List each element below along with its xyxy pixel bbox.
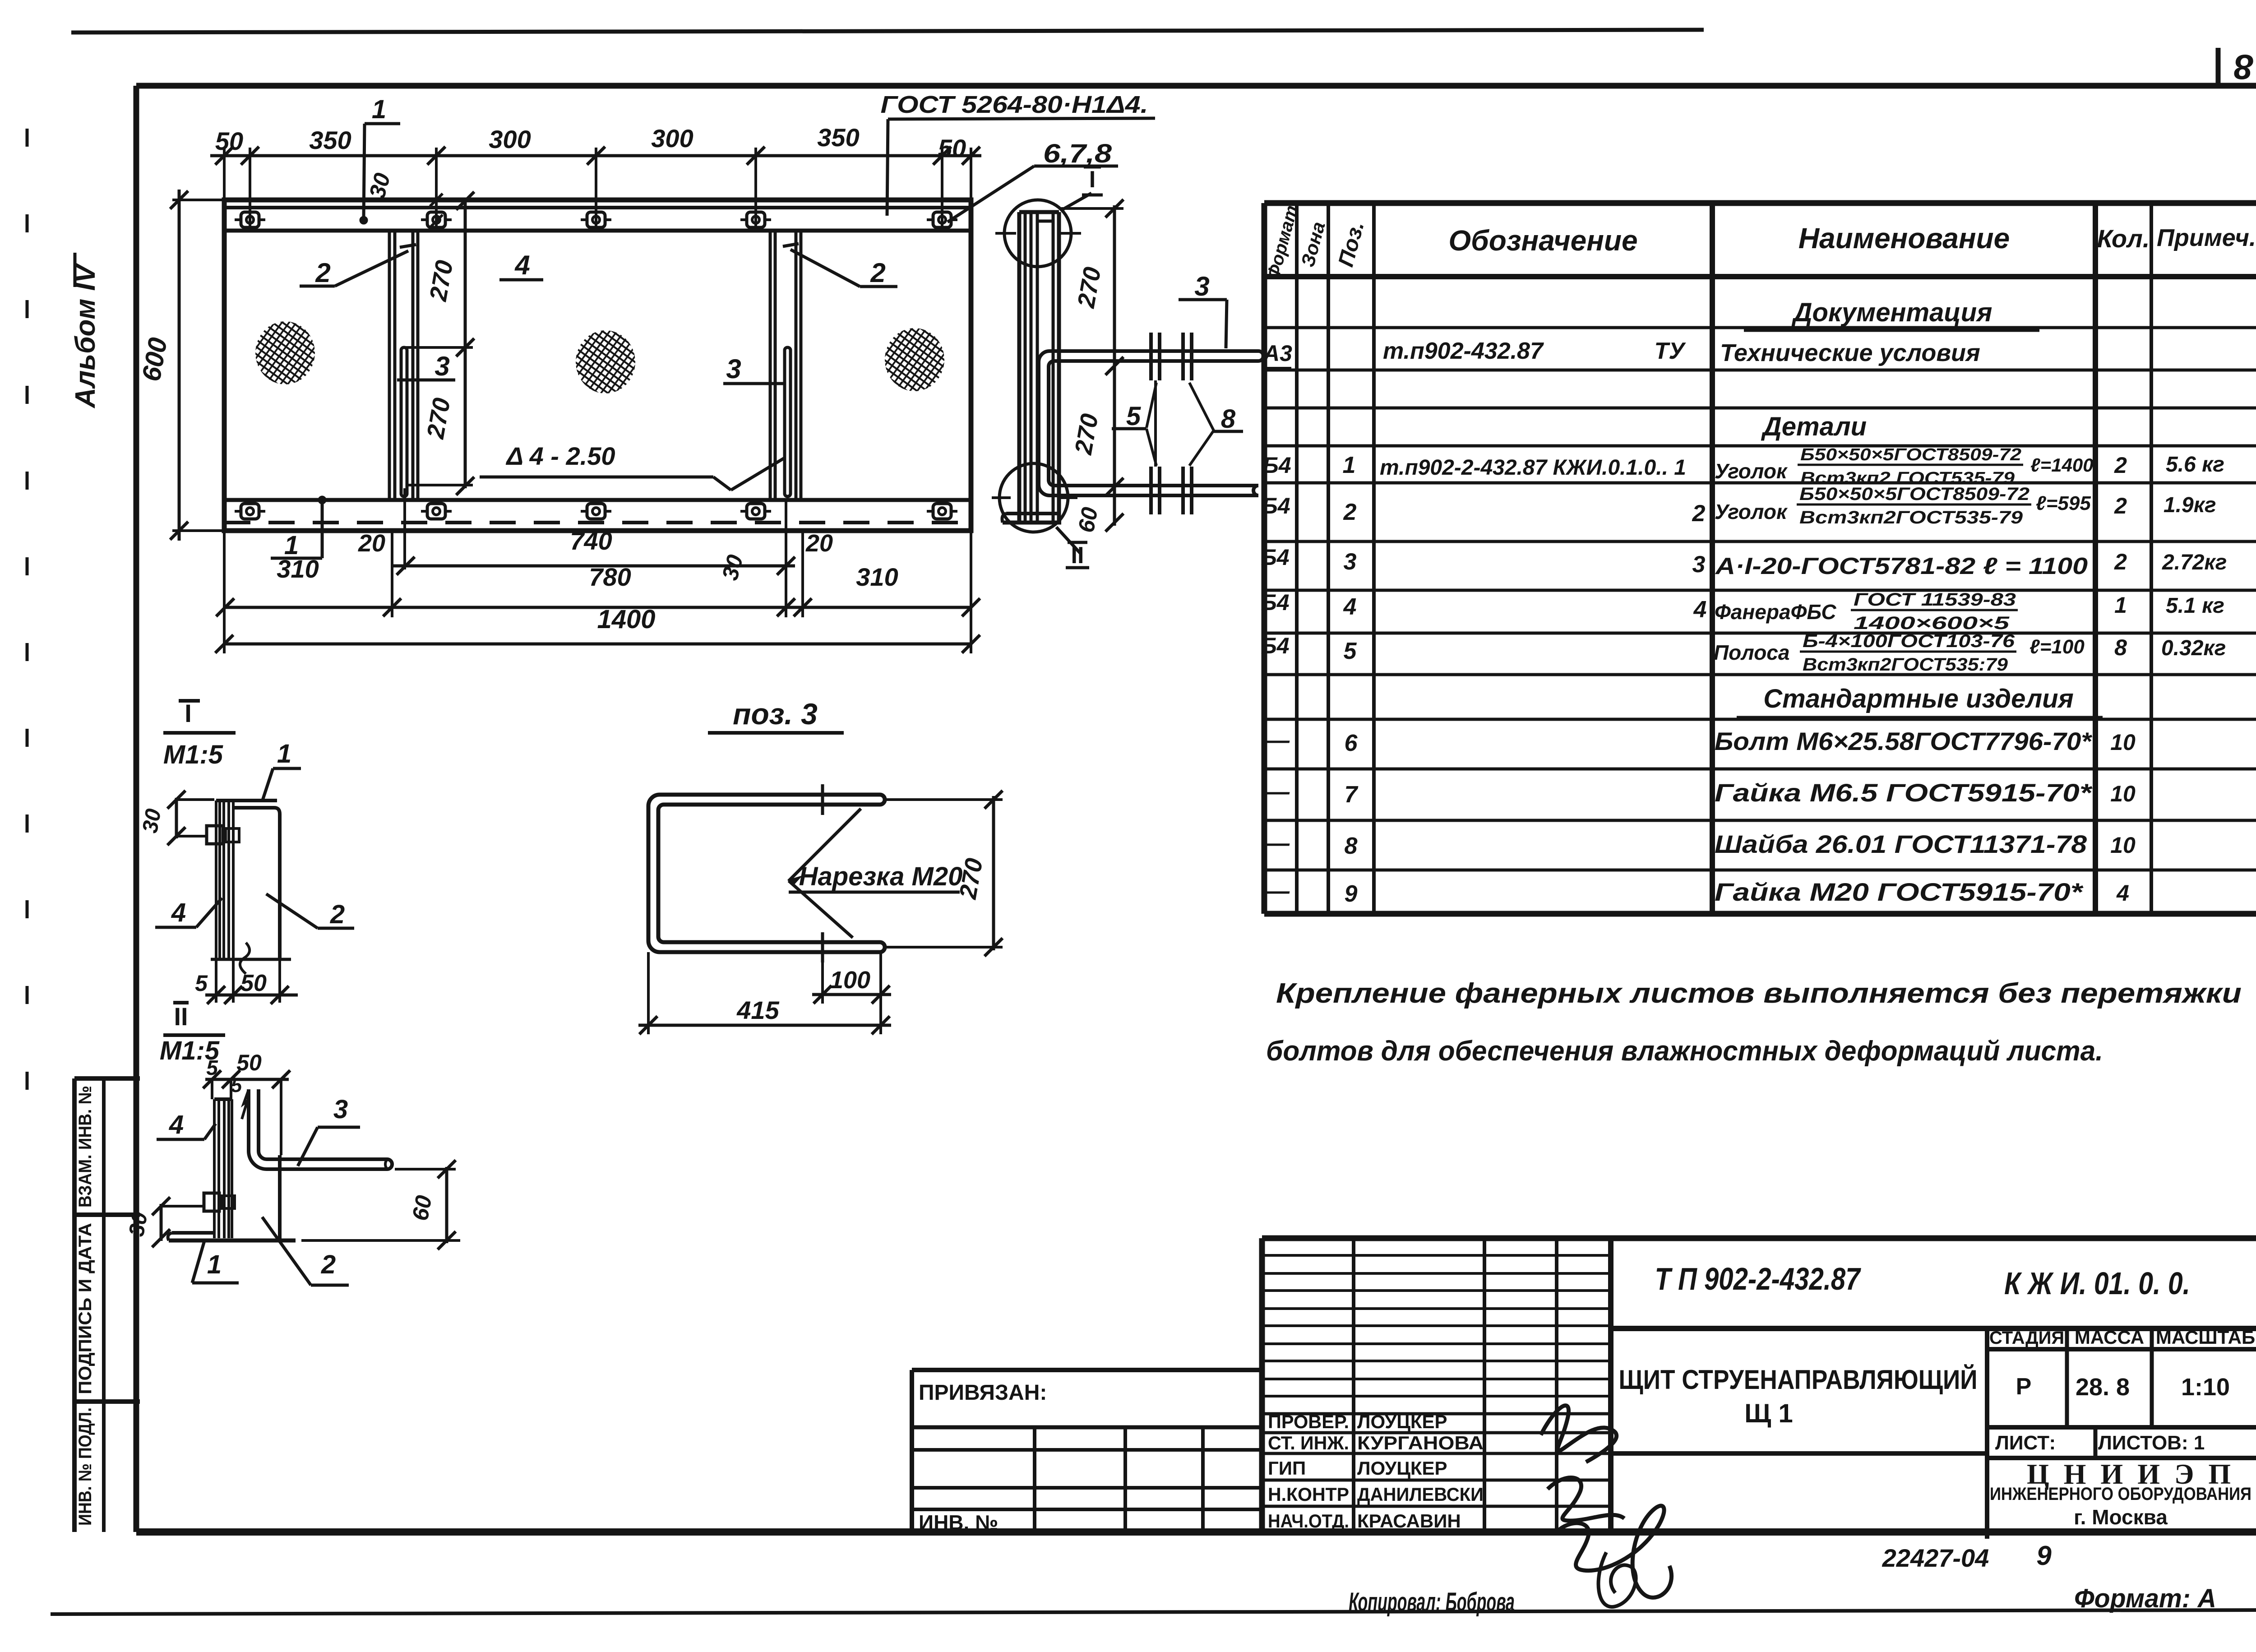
svg-text:Копировал: Боброва: Копировал: Боброва	[1349, 1587, 1515, 1617]
svg-text:100: 100	[830, 967, 870, 994]
svg-text:50: 50	[215, 127, 243, 155]
svg-text:60: 60	[407, 1194, 437, 1223]
svg-text:1400×600×5: 1400×600×5	[1854, 613, 2010, 633]
svg-text:20: 20	[805, 530, 833, 557]
svg-text:ℓ=100: ℓ=100	[2029, 636, 2085, 658]
svg-text:4: 4	[514, 250, 530, 280]
svg-text:Кол.: Кол.	[2097, 224, 2150, 253]
svg-text:ГИП: ГИП	[1268, 1458, 1306, 1479]
svg-text:Наименование: Наименование	[1798, 222, 2010, 255]
svg-text:0.32кг: 0.32кг	[2161, 636, 2226, 660]
svg-text:ПРИВЯЗАН:: ПРИВЯЗАН:	[919, 1381, 1047, 1405]
svg-text:II: II	[1071, 542, 1084, 569]
svg-text:Полоса: Полоса	[1714, 641, 1789, 664]
svg-text:ДАНИЛЕВСКИ: ДАНИЛЕВСКИ	[1357, 1484, 1484, 1505]
svg-text:Б-4×100ГОСТ103-76: Б-4×100ГОСТ103-76	[1803, 631, 2015, 651]
svg-text:3: 3	[435, 351, 449, 381]
svg-text:50: 50	[938, 134, 966, 162]
svg-text:ТУ: ТУ	[1655, 338, 1687, 364]
svg-text:7: 7	[1345, 782, 1359, 808]
svg-text:8: 8	[1221, 404, 1236, 434]
svg-text:ЛИСТ:: ЛИСТ:	[1995, 1432, 2056, 1454]
svg-text:Δ 4 - 2.50: Δ 4 - 2.50	[506, 442, 615, 470]
svg-text:30: 30	[125, 1210, 153, 1238]
svg-text:Б50×50×5ГОСТ8509-72: Б50×50×5ГОСТ8509-72	[1800, 445, 2021, 464]
svg-text:4: 4	[169, 1110, 184, 1139]
svg-text:1400: 1400	[597, 605, 655, 634]
svg-text:ИНЖЕНЕРНОГО ОБОРУДОВАНИЯ: ИНЖЕНЕРНОГО ОБОРУДОВАНИЯ	[1990, 1484, 2251, 1504]
svg-text:6,7,8: 6,7,8	[1043, 139, 1112, 168]
svg-text:10: 10	[2110, 833, 2136, 858]
svg-text:3: 3	[333, 1095, 348, 1124]
svg-text:ИНВ. № ПОДЛ.: ИНВ. № ПОДЛ.	[75, 1407, 95, 1526]
svg-text:ЛИСТОВ: 1: ЛИСТОВ: 1	[2098, 1432, 2205, 1454]
svg-text:Технические условия: Технические условия	[1720, 339, 1980, 366]
svg-text:болтов для обеспечения влажнос: болтов для обеспечения влажностных дефор…	[1266, 1036, 2103, 1067]
svg-text:2: 2	[321, 1250, 336, 1279]
svg-text:5: 5	[231, 1074, 242, 1097]
svg-text:Н.КОНТР: Н.КОНТР	[1268, 1484, 1349, 1505]
svg-text:Детали: Детали	[1761, 412, 1867, 441]
svg-text:415: 415	[736, 996, 779, 1024]
svg-text:4: 4	[171, 898, 186, 927]
svg-text:350: 350	[309, 126, 351, 154]
svg-text:5: 5	[1126, 402, 1141, 431]
svg-text:2: 2	[870, 258, 885, 288]
svg-text:6: 6	[1345, 730, 1358, 756]
svg-text:2: 2	[2114, 549, 2127, 574]
svg-text:310: 310	[856, 563, 898, 591]
svg-text:4: 4	[1693, 597, 1707, 623]
svg-text:ГОСТ 11539-83: ГОСТ 11539-83	[1854, 590, 2016, 610]
svg-text:Б4: Б4	[1261, 633, 1289, 658]
svg-text:4: 4	[1343, 594, 1357, 620]
svg-text:—: —	[1266, 727, 1290, 754]
svg-text:поз. 3: поз. 3	[733, 697, 818, 731]
svg-text:2: 2	[330, 900, 345, 929]
svg-text:МАССА: МАССА	[2075, 1327, 2144, 1348]
svg-text:1: 1	[372, 95, 386, 124]
svg-text:НАЧ.ОТД.: НАЧ.ОТД.	[1268, 1510, 1349, 1532]
svg-text:5: 5	[195, 971, 208, 996]
svg-text:22427-04: 22427-04	[1882, 1544, 1989, 1572]
svg-text:780: 780	[589, 563, 631, 591]
svg-text:2: 2	[1692, 500, 1706, 527]
svg-text:Б4: Б4	[1262, 493, 1290, 518]
svg-text:Крепление фанерных листов выпо: Крепление фанерных листов выполняется бе…	[1276, 978, 2242, 1009]
svg-text:Примеч.: Примеч.	[2157, 224, 2256, 251]
svg-text:4: 4	[2116, 880, 2129, 906]
svg-text:Обозначение: Обозначение	[1448, 224, 1637, 257]
svg-text:310: 310	[277, 555, 319, 583]
svg-text:1.9кг: 1.9кг	[2164, 493, 2216, 517]
svg-text:Б50×50×5ГОСТ8509-72: Б50×50×5ГОСТ8509-72	[1799, 484, 2029, 504]
svg-text:ℓ=1400: ℓ=1400	[2030, 454, 2094, 476]
svg-text:Вст3кп2ГОСТ535:79: Вст3кп2ГОСТ535:79	[1803, 655, 2008, 675]
svg-text:Р: Р	[2016, 1374, 2032, 1400]
svg-text:60: 60	[1073, 505, 1103, 535]
svg-text:8: 8	[2114, 635, 2127, 660]
svg-text:Уголок: Уголок	[1715, 500, 1788, 523]
svg-text:—: —	[1266, 779, 1290, 805]
svg-text:3: 3	[726, 354, 741, 384]
svg-text:300: 300	[489, 125, 531, 153]
svg-text:30: 30	[138, 807, 166, 835]
svg-text:Нарезка М20: Нарезка М20	[799, 862, 963, 891]
svg-text:II: II	[174, 1002, 188, 1031]
svg-text:Вст3кп2ГОСТ535-79: Вст3кп2ГОСТ535-79	[1799, 508, 2023, 528]
svg-text:1: 1	[2114, 592, 2127, 618]
svg-text:28. 8: 28. 8	[2076, 1374, 2130, 1401]
svg-text:2: 2	[315, 258, 330, 288]
svg-text:5.6 кг: 5.6 кг	[2166, 453, 2224, 477]
svg-text:—: —	[1266, 830, 1290, 856]
svg-text:300: 300	[651, 124, 693, 153]
svg-text:Документация: Документация	[1791, 298, 1992, 327]
svg-text:9: 9	[2036, 1541, 2052, 1571]
svg-text:Уголок: Уголок	[1715, 459, 1788, 483]
svg-text:10: 10	[2110, 781, 2136, 806]
svg-text:КРАСАВИН: КРАСАВИН	[1357, 1510, 1461, 1532]
svg-text:350: 350	[817, 123, 859, 152]
svg-text:Формат: А: Формат: А	[2074, 1584, 2216, 1613]
svg-text:ФанераФБС: ФанераФБС	[1715, 600, 1836, 624]
svg-text:ЛОУЦКЕР: ЛОУЦКЕР	[1357, 1458, 1447, 1479]
svg-text:КУРГАНОВА: КУРГАНОВА	[1357, 1432, 1484, 1453]
svg-text:Б4: Б4	[1261, 590, 1289, 615]
svg-text:А3: А3	[1262, 341, 1292, 366]
svg-text:2.72кг: 2.72кг	[2162, 551, 2227, 574]
svg-text:ЛОУЦКЕР: ЛОУЦКЕР	[1357, 1411, 1447, 1432]
svg-text:т.п902-2-432.87 КЖИ.0.1.0.. 1: т.п902-2-432.87 КЖИ.0.1.0.. 1	[1380, 456, 1686, 480]
svg-text:2: 2	[2114, 493, 2127, 518]
svg-text:Стандартные изделия: Стандартные изделия	[1763, 684, 2074, 713]
svg-text:—: —	[1266, 878, 1290, 904]
svg-text:3: 3	[1194, 271, 1209, 301]
svg-text:Т П 902-2-432.87: Т П 902-2-432.87	[1655, 1261, 1862, 1296]
svg-text:3: 3	[1692, 551, 1706, 578]
svg-text:1: 1	[277, 739, 291, 768]
svg-text:8: 8	[2234, 47, 2254, 87]
svg-text:Шайба 26.01 ГОСТ11371-78: Шайба 26.01 ГОСТ11371-78	[1715, 830, 2087, 858]
svg-text:ИНВ. №: ИНВ. №	[919, 1511, 998, 1534]
svg-text:М1:5: М1:5	[163, 740, 223, 769]
svg-text:СТАДИЯ: СТАДИЯ	[1989, 1328, 2064, 1348]
svg-text:г. Москва: г. Москва	[2074, 1505, 2168, 1529]
svg-text:1: 1	[1343, 452, 1356, 478]
svg-text:Болт М6×25.58ГОСТ7796-70*: Болт М6×25.58ГОСТ7796-70*	[1715, 727, 2092, 755]
svg-text:МАСШТАБ: МАСШТАБ	[2156, 1327, 2255, 1348]
svg-text:А·I-20-ГОСТ5781-82 ℓ = 1100: А·I-20-ГОСТ5781-82 ℓ = 1100	[1715, 553, 2088, 579]
svg-text:8: 8	[1345, 833, 1358, 859]
svg-text:9: 9	[1345, 881, 1358, 907]
svg-text:2: 2	[2114, 453, 2127, 478]
svg-text:ГОСТ 5264-80·Н1Δ4.: ГОСТ 5264-80·Н1Δ4.	[881, 91, 1148, 118]
svg-text:740: 740	[570, 527, 612, 555]
svg-text:5: 5	[1344, 638, 1357, 664]
svg-text:2: 2	[1343, 499, 1357, 525]
svg-text:Щ 1: Щ 1	[1744, 1399, 1793, 1428]
svg-text:ℓ=595: ℓ=595	[2036, 492, 2091, 514]
svg-text:Гайка М6.5 ГОСТ5915-70*: Гайка М6.5 ГОСТ5915-70*	[1715, 778, 2093, 807]
svg-text:Б4: Б4	[1262, 453, 1291, 478]
svg-text:1: 1	[207, 1250, 222, 1279]
svg-text:3: 3	[1344, 549, 1357, 575]
svg-text:I: I	[1089, 167, 1096, 193]
svg-text:К Ж И. 01. 0. 0.: К Ж И. 01. 0. 0.	[2004, 1266, 2190, 1301]
svg-text:10: 10	[2110, 730, 2136, 755]
svg-text:Б4: Б4	[1261, 545, 1289, 570]
svg-text:Гайка М20 ГОСТ5915-70*: Гайка М20 ГОСТ5915-70*	[1715, 878, 2084, 906]
svg-text:ЩИТ СТРУЕНАПРАВЛЯЮЩИЙ: ЩИТ СТРУЕНАПРАВЛЯЮЩИЙ	[1619, 1365, 1978, 1395]
svg-text:1:10: 1:10	[2181, 1374, 2230, 1401]
svg-text:ВЗАМ. ИНВ. №: ВЗАМ. ИНВ. №	[75, 1086, 95, 1208]
svg-text:ПОДПИСЬ И ДАТА: ПОДПИСЬ И ДАТА	[75, 1223, 95, 1394]
svg-text:5.1 кг: 5.1 кг	[2166, 594, 2224, 618]
svg-text:ПРОВЕР.: ПРОВЕР.	[1268, 1411, 1349, 1432]
svg-text:т.п902-432.87: т.п902-432.87	[1383, 338, 1544, 364]
svg-text:I: I	[185, 699, 192, 727]
svg-text:СТ. ИНЖ.: СТ. ИНЖ.	[1268, 1432, 1349, 1453]
svg-text:20: 20	[358, 530, 385, 557]
